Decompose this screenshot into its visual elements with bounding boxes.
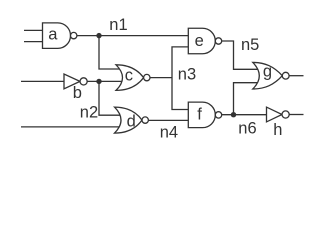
wire a output to e (net n1) [77, 35, 188, 37]
svg-text:a: a [48, 25, 58, 43]
NOT gate b [64, 74, 87, 102]
svg-text:f: f [197, 106, 202, 124]
wire n1 down to c input 1 [99, 36, 120, 69]
svg-text:h: h [273, 121, 282, 139]
wire g output [289, 75, 303, 77]
svg-text:e: e [195, 32, 204, 50]
wire d input 2 [21, 126, 119, 128]
svg-text:n6: n6 [238, 120, 256, 138]
wire f output to h (net n6) [222, 114, 267, 116]
svg-text:d: d [127, 113, 136, 131]
svg-text:n4: n4 [160, 123, 178, 141]
wire h output [289, 114, 303, 116]
wire n3 vertical to e input 2 and f input 1 [172, 47, 188, 110]
wire a input 1 [24, 29, 43, 31]
node n6 junction dot [231, 112, 236, 117]
svg-text:n2: n2 [80, 103, 98, 121]
NAND gate a [43, 23, 77, 48]
node n1 junction dot [96, 33, 101, 38]
wire c output (net n3) [150, 77, 172, 79]
svg-text:g: g [263, 63, 272, 81]
svg-text:b: b [73, 84, 82, 102]
wire a input 2 [24, 41, 43, 43]
svg-text:c: c [125, 67, 133, 85]
NAND gate f [188, 102, 221, 128]
wire b input [21, 80, 64, 82]
svg-text:n5: n5 [241, 36, 259, 54]
svg-text:n3: n3 [178, 66, 196, 84]
node b-output junction dot [96, 79, 101, 84]
svg-text:n1: n1 [109, 16, 127, 34]
wire b output down to d input 1 (net n2) [99, 81, 120, 115]
wire n6 up to g input 2 [234, 83, 258, 115]
NOR gate c [116, 65, 150, 91]
NOR gate g [253, 62, 289, 89]
wire b output to c input 2 [87, 80, 122, 82]
NOR gate d [115, 107, 149, 133]
wire e output to g input 1 (net n5) [222, 41, 258, 69]
NAND gate e [188, 28, 221, 54]
wire d output to f input 2 (net n4) [148, 119, 188, 121]
NOT gate h [267, 107, 290, 139]
